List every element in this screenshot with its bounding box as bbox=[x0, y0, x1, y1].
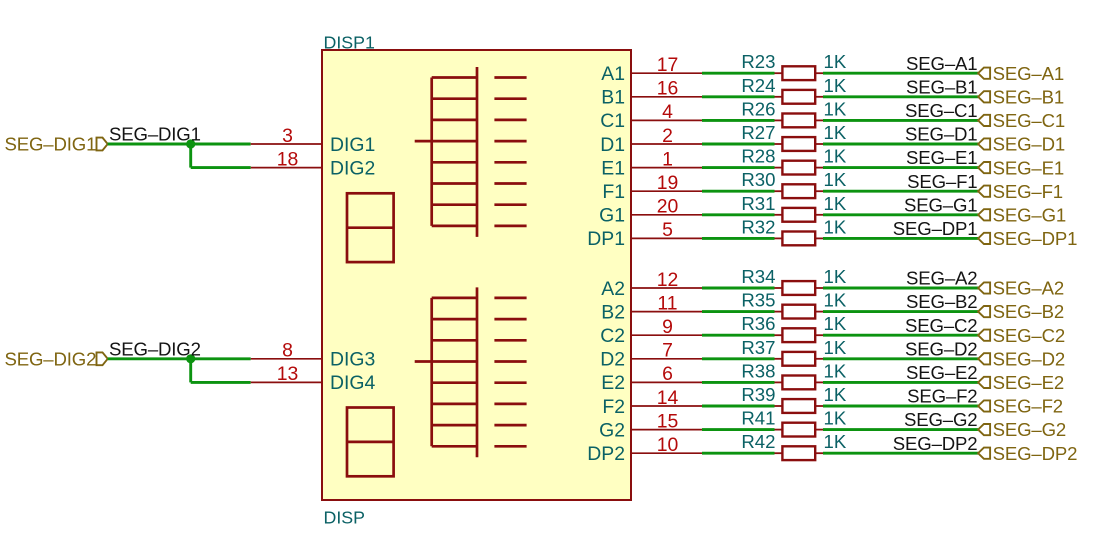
svg-text:R26: R26 bbox=[741, 98, 775, 119]
svg-text:19: 19 bbox=[657, 172, 679, 194]
svg-text:SEG–DIG2: SEG–DIG2 bbox=[4, 348, 96, 369]
svg-text:4: 4 bbox=[662, 101, 673, 123]
svg-text:DP2: DP2 bbox=[587, 443, 625, 465]
svg-text:SEG–DP1: SEG–DP1 bbox=[893, 218, 978, 239]
svg-text:DIG4: DIG4 bbox=[330, 372, 375, 394]
svg-text:DP1: DP1 bbox=[587, 228, 625, 250]
svg-text:6: 6 bbox=[662, 363, 673, 385]
svg-text:15: 15 bbox=[657, 410, 679, 432]
svg-text:SEG–DP1: SEG–DP1 bbox=[993, 228, 1078, 249]
svg-text:SEG–E1: SEG–E1 bbox=[993, 157, 1064, 178]
svg-text:SEG–C2: SEG–C2 bbox=[905, 315, 977, 336]
svg-text:SEG–G1: SEG–G1 bbox=[993, 205, 1067, 226]
svg-text:SEG–D2: SEG–D2 bbox=[993, 348, 1065, 369]
svg-text:1K: 1K bbox=[824, 384, 847, 405]
svg-text:SEG–B1: SEG–B1 bbox=[993, 87, 1064, 108]
svg-text:1K: 1K bbox=[824, 290, 847, 311]
svg-text:7: 7 bbox=[662, 340, 673, 362]
svg-text:R34: R34 bbox=[741, 266, 775, 287]
svg-text:R24: R24 bbox=[741, 75, 775, 96]
svg-text:1K: 1K bbox=[824, 408, 847, 429]
svg-text:8: 8 bbox=[282, 340, 293, 362]
svg-text:R35: R35 bbox=[741, 290, 775, 311]
svg-text:R38: R38 bbox=[741, 360, 775, 381]
svg-text:R23: R23 bbox=[741, 51, 775, 72]
svg-text:E1: E1 bbox=[601, 157, 625, 179]
svg-text:SEG–F2: SEG–F2 bbox=[993, 396, 1063, 417]
svg-text:SEG–C1: SEG–C1 bbox=[993, 110, 1065, 131]
svg-text:SEG–C1: SEG–C1 bbox=[905, 100, 977, 121]
svg-text:E2: E2 bbox=[601, 372, 625, 394]
svg-text:SEG–E2: SEG–E2 bbox=[993, 372, 1064, 393]
svg-text:9: 9 bbox=[662, 316, 673, 338]
svg-text:1K: 1K bbox=[824, 216, 847, 237]
svg-text:B2: B2 bbox=[601, 301, 625, 323]
svg-text:R36: R36 bbox=[741, 313, 775, 334]
svg-text:SEG–A2: SEG–A2 bbox=[993, 278, 1064, 299]
svg-text:A1: A1 bbox=[601, 63, 625, 85]
svg-text:SEG–D1: SEG–D1 bbox=[905, 124, 977, 145]
svg-text:18: 18 bbox=[277, 148, 299, 170]
svg-text:SEG–DIG1: SEG–DIG1 bbox=[4, 134, 96, 155]
svg-text:SEG–A1: SEG–A1 bbox=[906, 53, 977, 74]
svg-text:R42: R42 bbox=[741, 431, 775, 452]
svg-text:1K: 1K bbox=[824, 75, 847, 96]
svg-text:1: 1 bbox=[662, 148, 673, 170]
svg-text:SEG–F1: SEG–F1 bbox=[907, 171, 977, 192]
svg-text:R39: R39 bbox=[741, 384, 775, 405]
svg-text:SEG–A2: SEG–A2 bbox=[906, 268, 977, 289]
svg-text:DIG3: DIG3 bbox=[330, 349, 375, 371]
svg-text:SEG–E1: SEG–E1 bbox=[906, 147, 977, 168]
svg-text:SEG–DIG2: SEG–DIG2 bbox=[109, 338, 201, 359]
svg-text:SEG–F2: SEG–F2 bbox=[907, 386, 977, 407]
svg-text:SEG–F1: SEG–F1 bbox=[993, 181, 1063, 202]
svg-text:10: 10 bbox=[657, 434, 679, 456]
svg-text:1K: 1K bbox=[824, 313, 847, 334]
svg-text:1K: 1K bbox=[824, 146, 847, 167]
svg-text:3: 3 bbox=[282, 125, 293, 147]
svg-text:SEG–D2: SEG–D2 bbox=[905, 338, 977, 359]
svg-text:20: 20 bbox=[657, 196, 679, 218]
svg-text:R27: R27 bbox=[741, 122, 775, 143]
svg-text:R37: R37 bbox=[741, 337, 775, 358]
svg-text:A2: A2 bbox=[601, 278, 625, 300]
svg-text:F1: F1 bbox=[602, 181, 625, 203]
svg-text:11: 11 bbox=[657, 292, 677, 314]
svg-text:2: 2 bbox=[662, 125, 673, 147]
svg-text:R28: R28 bbox=[741, 146, 775, 167]
svg-text:SEG–A1: SEG–A1 bbox=[993, 63, 1064, 84]
svg-text:R32: R32 bbox=[741, 216, 775, 237]
svg-text:F2: F2 bbox=[602, 396, 625, 418]
svg-text:C2: C2 bbox=[600, 325, 625, 347]
svg-text:14: 14 bbox=[657, 387, 679, 409]
svg-text:1K: 1K bbox=[824, 98, 847, 119]
svg-text:SEG–G1: SEG–G1 bbox=[904, 194, 978, 215]
svg-text:SEG–D1: SEG–D1 bbox=[993, 134, 1065, 155]
svg-text:R30: R30 bbox=[741, 169, 775, 190]
svg-text:SEG–B1: SEG–B1 bbox=[906, 76, 977, 97]
svg-text:1K: 1K bbox=[824, 431, 847, 452]
svg-text:SEG–G2: SEG–G2 bbox=[904, 409, 978, 430]
svg-text:DIG2: DIG2 bbox=[330, 157, 375, 179]
svg-text:1K: 1K bbox=[824, 169, 847, 190]
svg-text:1K: 1K bbox=[824, 360, 847, 381]
svg-text:G2: G2 bbox=[599, 419, 625, 441]
svg-text:SEG–B2: SEG–B2 bbox=[906, 291, 977, 312]
svg-text:D1: D1 bbox=[600, 134, 625, 156]
svg-text:R31: R31 bbox=[741, 193, 775, 214]
svg-text:13: 13 bbox=[277, 363, 299, 385]
svg-text:1K: 1K bbox=[824, 193, 847, 214]
svg-text:5: 5 bbox=[662, 219, 673, 241]
svg-text:SEG–C2: SEG–C2 bbox=[993, 325, 1065, 346]
svg-text:1K: 1K bbox=[824, 122, 847, 143]
svg-text:DISP: DISP bbox=[324, 508, 366, 528]
svg-text:C1: C1 bbox=[600, 110, 625, 132]
svg-text:SEG–DP2: SEG–DP2 bbox=[993, 443, 1078, 464]
svg-text:12: 12 bbox=[657, 269, 679, 291]
svg-text:SEG–DIG1: SEG–DIG1 bbox=[109, 124, 201, 145]
svg-text:1K: 1K bbox=[824, 266, 847, 287]
svg-text:SEG–E2: SEG–E2 bbox=[906, 362, 977, 383]
svg-text:D2: D2 bbox=[600, 349, 625, 371]
svg-text:B1: B1 bbox=[601, 87, 625, 109]
svg-text:R41: R41 bbox=[741, 408, 775, 429]
svg-text:17: 17 bbox=[657, 54, 679, 76]
svg-text:16: 16 bbox=[657, 78, 679, 100]
svg-text:SEG–B2: SEG–B2 bbox=[993, 301, 1064, 322]
svg-text:1K: 1K bbox=[824, 51, 847, 72]
svg-text:SEG–DP2: SEG–DP2 bbox=[893, 433, 978, 454]
svg-text:1K: 1K bbox=[824, 337, 847, 358]
svg-text:DISP1: DISP1 bbox=[324, 32, 376, 52]
svg-text:G1: G1 bbox=[599, 205, 625, 227]
svg-text:SEG–G2: SEG–G2 bbox=[993, 419, 1067, 440]
svg-text:DIG1: DIG1 bbox=[330, 134, 375, 156]
